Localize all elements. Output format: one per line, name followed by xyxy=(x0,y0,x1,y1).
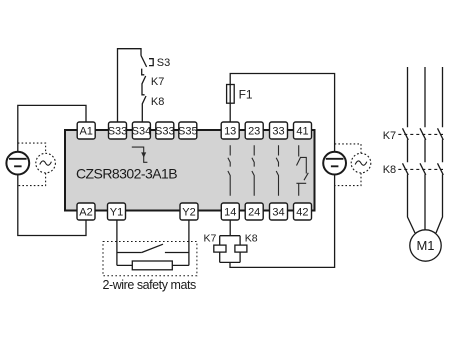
svg-text:S33: S33 xyxy=(155,126,175,138)
svg-text:A2: A2 xyxy=(79,207,92,219)
svg-text:23: 23 xyxy=(248,126,260,138)
svg-text:42: 42 xyxy=(296,207,308,219)
svg-text:M1: M1 xyxy=(416,238,434,253)
svg-text:14: 14 xyxy=(224,207,236,219)
svg-text:K7: K7 xyxy=(383,130,396,142)
svg-text:K7: K7 xyxy=(151,76,164,88)
svg-text:S34: S34 xyxy=(132,126,152,138)
svg-text:41: 41 xyxy=(296,126,308,138)
svg-text:S3: S3 xyxy=(157,57,170,69)
svg-text:2-wire safety mats: 2-wire safety mats xyxy=(103,278,197,292)
svg-text:24: 24 xyxy=(248,207,260,219)
svg-text:13: 13 xyxy=(224,126,236,138)
svg-text:Y2: Y2 xyxy=(182,207,195,219)
svg-text:34: 34 xyxy=(272,207,284,219)
svg-text:S33: S33 xyxy=(108,126,128,138)
svg-text:K8: K8 xyxy=(151,96,164,108)
svg-text:F1: F1 xyxy=(239,88,253,102)
svg-text:S35: S35 xyxy=(178,126,198,138)
svg-text:A1: A1 xyxy=(79,126,92,138)
svg-text:CZSR8302-3A1B: CZSR8302-3A1B xyxy=(76,166,177,182)
svg-text:K8: K8 xyxy=(245,233,258,245)
svg-text:K8: K8 xyxy=(383,164,396,176)
svg-text:33: 33 xyxy=(272,126,284,138)
svg-text:Y1: Y1 xyxy=(110,207,123,219)
svg-text:K7: K7 xyxy=(204,233,217,245)
